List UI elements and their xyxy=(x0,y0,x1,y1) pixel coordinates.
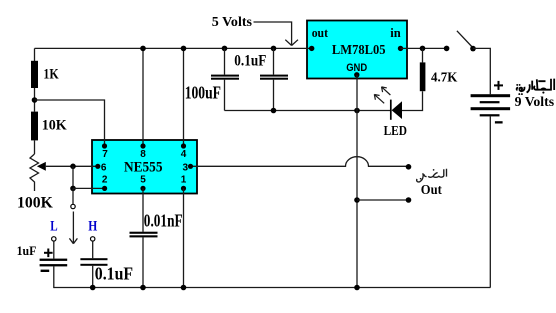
wire H terminal to C5 xyxy=(92,241,94,258)
BT1 minus sign xyxy=(495,121,503,123)
wire C5 to ground rail xyxy=(92,266,94,288)
node C1 bus junction xyxy=(222,46,228,52)
svg-text:NE555: NE555 xyxy=(124,159,163,175)
U1 pin 4 dot xyxy=(181,143,186,148)
label 9 Volts xyxy=(515,95,555,110)
U1 label NE555 xyxy=(124,159,163,175)
wire L terminal to C4 xyxy=(53,241,55,259)
svg-text:GND: GND xyxy=(346,62,367,74)
U1 pin number 8 xyxy=(140,149,146,160)
R2 value label 10K xyxy=(42,117,67,133)
node junction R1-R2 xyxy=(32,97,38,103)
node C2 bus junction xyxy=(271,46,277,52)
wire pin1 to ground rail xyxy=(183,188,185,287)
wire C3 to ground rail xyxy=(142,237,144,287)
wire wiper to pin 6 xyxy=(46,165,98,167)
switch SW1 right contact dot xyxy=(470,46,476,52)
wire switch to battery xyxy=(473,48,490,94)
U1 pin number 5 xyxy=(140,175,146,186)
svg-text:0.1uF: 0.1uF xyxy=(234,53,266,70)
svg-text:in: in xyxy=(390,25,401,40)
C1 value label 100uF xyxy=(185,83,221,103)
U2 pin label GND xyxy=(346,62,367,74)
U1 pin 4 riser wire xyxy=(183,48,185,146)
wire top supply bus xyxy=(35,47,312,49)
switch SW1 lever xyxy=(457,31,472,47)
label Arabic output (almakhraj) xyxy=(417,169,447,182)
svg-text:Out: Out xyxy=(421,183,442,198)
U1 pin 2 dot xyxy=(102,186,107,191)
wire in pin to switch xyxy=(401,47,447,49)
svg-text:1: 1 xyxy=(181,175,187,186)
svg-text:2: 2 xyxy=(102,175,108,186)
node pin4 bus junction xyxy=(181,46,187,52)
C2 value label 0.1uF xyxy=(234,53,266,70)
U2 pin label out xyxy=(312,25,329,40)
wire bus to C2 xyxy=(273,48,275,74)
U1 pin 6 dot xyxy=(95,164,100,169)
node pin2 junction xyxy=(70,186,76,192)
label Arabic battery (albattariya) xyxy=(516,79,554,95)
node pin8 bus junction xyxy=(140,46,146,52)
U1 pin 1 dot xyxy=(181,186,186,191)
battery BT1 plates xyxy=(471,94,511,116)
svg-text:100uF: 100uF xyxy=(185,83,221,103)
wire wiper junction down to pin2 line xyxy=(72,166,74,188)
wire battery to ground rail xyxy=(489,116,491,287)
capacitor C1 100uF plates xyxy=(211,75,239,80)
R1 value label 1K xyxy=(43,66,59,82)
node wiper junction xyxy=(70,164,76,170)
terminal open circle H xyxy=(91,237,95,241)
svg-text:0.1uF: 0.1uF xyxy=(95,264,133,284)
selector arrow down xyxy=(69,212,77,244)
C4 plus sign xyxy=(44,249,53,258)
label H (blue) xyxy=(88,219,98,235)
wire 1K to 10K xyxy=(34,88,36,112)
node GND bottom junction xyxy=(354,285,360,291)
svg-text:out: out xyxy=(312,25,329,40)
svg-text:5 Volts: 5 Volts xyxy=(212,15,253,30)
capacitor C5 0.1uF plates xyxy=(80,258,107,266)
D1 label LED xyxy=(384,124,407,139)
U2 out pin dot xyxy=(309,46,314,51)
svg-text:1uF: 1uF xyxy=(17,243,37,258)
U1 pin number 2 xyxy=(102,175,108,186)
wire junction down to selector terminal xyxy=(72,188,74,204)
node ground stub junction xyxy=(354,197,360,203)
IC U2 LM78L05 box xyxy=(307,21,407,79)
wire bus to C1 xyxy=(224,48,226,74)
wire to pin 2 xyxy=(73,187,105,189)
C4 value label 1uF xyxy=(17,243,37,258)
svg-text:4: 4 xyxy=(181,149,187,160)
U1 pin 5 dot xyxy=(140,186,145,191)
svg-text:H: H xyxy=(88,219,98,235)
svg-text:9 Volts: 9 Volts xyxy=(515,95,555,110)
svg-text:6: 6 xyxy=(101,163,107,174)
svg-text:4.7K: 4.7K xyxy=(431,70,457,85)
C3 value label 0.01nF xyxy=(144,210,183,230)
label 5 Volts xyxy=(212,15,253,30)
terminal open circle L xyxy=(52,237,56,241)
U1 pin 8 riser wire xyxy=(142,48,144,146)
wire 10K to potentiometer xyxy=(34,140,36,154)
5 Volts pointer arrow xyxy=(254,22,299,46)
label Out xyxy=(421,183,442,198)
svg-text:0.01nF: 0.01nF xyxy=(144,210,183,230)
svg-text:LM78L05: LM78L05 xyxy=(332,42,386,57)
wire C4 to ground rail xyxy=(53,266,55,288)
wire left rail to 1K xyxy=(34,48,36,61)
node GND mid junction xyxy=(354,108,360,114)
U2 label LM78L05 xyxy=(332,42,386,57)
svg-text:1K: 1K xyxy=(43,66,59,82)
LED D1 emission arrows xyxy=(374,87,390,104)
wire GND vertical to ground rail xyxy=(356,75,358,288)
R3 value label 100K xyxy=(17,195,53,212)
resistor R2 10K xyxy=(31,112,38,141)
R4 value label 4.7K xyxy=(431,70,457,85)
potentiometer R3 100K zigzag xyxy=(30,154,39,191)
svg-text:L: L xyxy=(50,219,58,235)
capacitor C2 0.1uF plates xyxy=(260,75,288,80)
U1 pin number 1 xyxy=(181,175,187,186)
wire mid ground rail to LED xyxy=(225,110,391,112)
svg-text:7: 7 xyxy=(102,149,108,160)
node 4.7K bus junction xyxy=(420,46,426,52)
U1 pin number 4 xyxy=(181,149,187,160)
resistor R1 1K xyxy=(31,61,38,88)
wire junction to pin7 riser xyxy=(35,100,105,146)
BT1 plus sign xyxy=(494,81,503,90)
capacitor C3 0.01nF plates xyxy=(130,232,158,238)
U2 GND pin dot xyxy=(354,72,359,77)
U1 pin 8 dot xyxy=(140,143,145,148)
node C5 ground junction xyxy=(90,285,96,291)
U1 pin number 7 xyxy=(102,149,108,160)
wire bus to 4.7K xyxy=(422,48,424,62)
svg-text:LED: LED xyxy=(384,124,407,139)
U1 pin 3 dot xyxy=(188,164,193,169)
wire C1 to mid rail xyxy=(224,80,226,111)
wire pin5 to C3 xyxy=(142,188,144,231)
svg-text:8: 8 xyxy=(140,149,146,160)
svg-text:10K: 10K xyxy=(42,117,67,133)
svg-text:3: 3 xyxy=(183,163,189,174)
svg-text:100K: 100K xyxy=(17,195,53,212)
IC U1 NE555 box xyxy=(92,140,197,194)
svg-text:5: 5 xyxy=(140,175,146,186)
switch SW1 left contact dot xyxy=(444,46,450,52)
terminal output dot xyxy=(406,164,412,170)
terminal open circle selector xyxy=(71,204,75,208)
label L (blue) xyxy=(50,219,58,235)
terminal ground stub dot xyxy=(406,197,412,203)
wire 4.7K to LED anode xyxy=(402,91,423,110)
LED D1 cathode bar xyxy=(390,100,392,120)
wire U1 pin3 output with hop xyxy=(191,157,409,167)
U1 pin number 6 xyxy=(101,163,107,174)
U2 pin label in xyxy=(390,25,401,40)
node C2 mid junction xyxy=(271,108,277,114)
LED D1 triangle xyxy=(392,101,402,119)
resistor R4 4.7K xyxy=(420,62,426,91)
U1 pin 7 dot xyxy=(102,143,107,148)
wire C2 to mid rail xyxy=(273,80,275,111)
ground rail bottom xyxy=(54,287,491,289)
wire ground stub xyxy=(357,199,409,201)
node pin5 ground junction xyxy=(140,285,146,291)
C5 value label 0.1uF xyxy=(95,264,133,284)
C4 minus sign xyxy=(41,270,50,272)
node pin1 ground junction xyxy=(181,285,187,291)
U2 in pin dot xyxy=(398,46,403,51)
R3 wiper arrow xyxy=(37,162,46,171)
capacitor C4 1uF plates xyxy=(40,259,68,267)
U1 pin number 3 xyxy=(183,163,189,174)
